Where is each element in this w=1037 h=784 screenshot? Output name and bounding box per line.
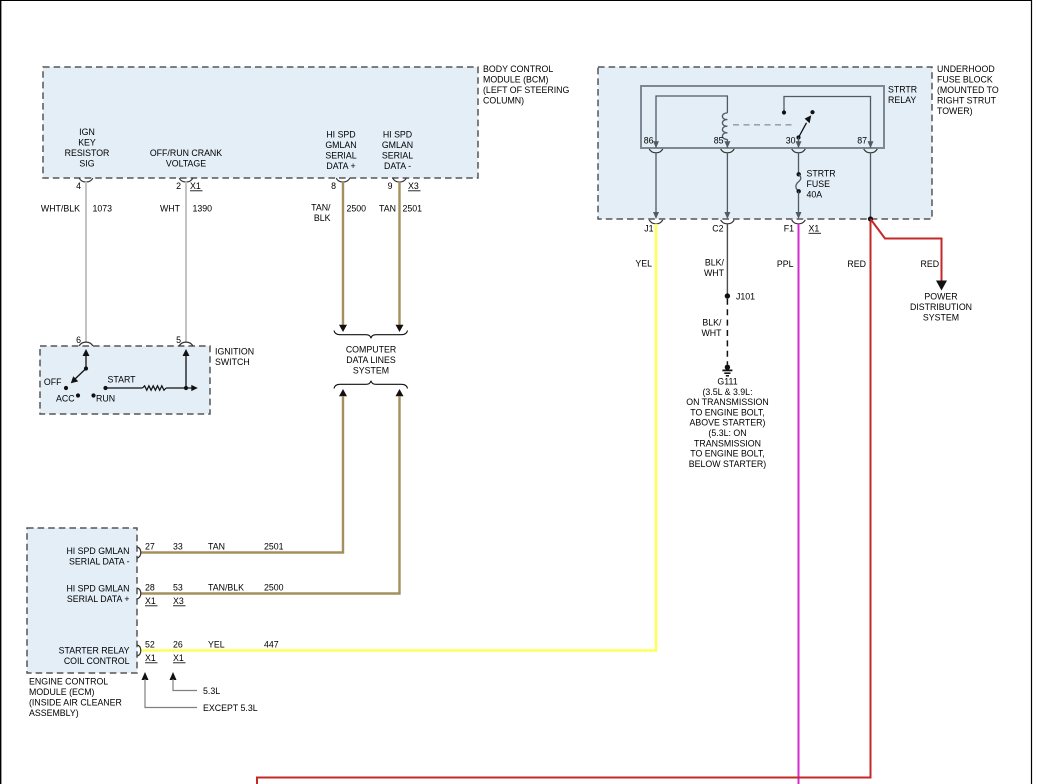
svg-text:SERIAL: SERIAL (382, 151, 413, 161)
BCM pin 9 connector cup (388, 178, 421, 191)
BCM pin function label HI SPD GMLAN SERIAL DATA - (382, 130, 413, 172)
svg-text:COLUMN): COLUMN) (483, 96, 524, 106)
svg-text:MODULE (ECM): MODULE (ECM) (29, 687, 95, 697)
wire YEL J1 down and to ECM (141, 224, 657, 651)
svg-text:53: 53 (173, 583, 183, 593)
BCM pin 8 connector cup (331, 178, 350, 191)
ECM pin function label STARTER RELAY COIL CONTROL (59, 646, 130, 667)
svg-text:26: 26 (173, 640, 183, 650)
svg-text:86: 86 (644, 136, 654, 146)
wire WHT/BLK 1073 pin4 to ignition pin6 (41, 182, 112, 342)
svg-text:5.3L: 5.3L (203, 686, 220, 696)
wire TAN/BLK 2500 pin8 to data lines (311, 182, 366, 332)
wire TAN 2501 from data lines to ECM pin27 (141, 389, 348, 553)
svg-text:2500: 2500 (347, 204, 367, 214)
svg-text:RIGHT STRUT: RIGHT STRUT (937, 96, 997, 106)
svg-text:WHT/BLK: WHT/BLK (41, 204, 80, 214)
svg-text:STARTER RELAY: STARTER RELAY (59, 646, 130, 656)
computer data lines upper brace (334, 331, 408, 339)
svg-text:FUSE: FUSE (807, 179, 831, 189)
ground G111 label (686, 377, 768, 469)
ignition RUN position (91, 393, 115, 403)
relay coil to armature dashed link (733, 124, 793, 126)
svg-text:BODY CONTROL: BODY CONTROL (483, 64, 553, 74)
svg-text:9: 9 (388, 181, 393, 191)
relay pin cups on relay bottom edge (649, 149, 877, 153)
wire RED junction down and across bottom (257, 221, 871, 784)
svg-text:ACC: ACC (56, 394, 75, 404)
svg-text:X1: X1 (190, 181, 201, 191)
ignition switch movable contact from pin 6 (71, 349, 90, 383)
ECM label text (29, 677, 122, 719)
svg-text:SIG: SIG (79, 159, 94, 169)
ignition pin 6 connector cup (76, 335, 93, 346)
junction node on fuse block edge (868, 216, 873, 221)
svg-text:PPL: PPL (777, 259, 794, 269)
wire RED branch to power distribution (871, 219, 948, 291)
svg-text:STRTR: STRTR (888, 85, 917, 95)
ignition start feed arrow (186, 385, 198, 391)
computer data lines system text (346, 345, 396, 376)
note arrow EXCEPT 5.3L to pin 52 (142, 672, 258, 713)
svg-text:RELAY: RELAY (888, 95, 916, 105)
ECM module box U2 (27, 528, 137, 673)
svg-text:40A: 40A (807, 190, 823, 200)
svg-text:28: 28 (145, 583, 155, 593)
svg-text:STRTR: STRTR (807, 169, 836, 179)
ECM pin 28/53 connector cup (137, 583, 284, 607)
svg-text:8: 8 (331, 181, 336, 191)
svg-text:SERIAL: SERIAL (325, 151, 356, 161)
svg-text:DATA LINES: DATA LINES (346, 355, 396, 365)
svg-text:SERIAL DATA +: SERIAL DATA + (67, 594, 130, 604)
svg-text:OFF: OFF (44, 377, 62, 387)
STRTR FUSE 40A F1 (796, 153, 836, 219)
svg-text:X1: X1 (173, 653, 184, 663)
starter relay K1 box (641, 85, 917, 149)
svg-text:2501: 2501 (403, 204, 423, 214)
svg-text:(MOUNTED TO: (MOUNTED TO (937, 85, 999, 95)
note arrow 5.3L to pin 26 (170, 672, 221, 696)
svg-text:TRANSMISSION: TRANSMISSION (694, 438, 761, 448)
ignition switch box S1 (40, 346, 254, 414)
svg-text:C2: C2 (712, 224, 723, 234)
relay pin 87 arrow (857, 136, 873, 149)
svg-text:RESISTOR: RESISTOR (65, 148, 110, 158)
svg-text:1390: 1390 (193, 204, 213, 214)
svg-text:J101: J101 (736, 291, 755, 301)
svg-text:33: 33 (173, 542, 183, 552)
svg-text:1073: 1073 (93, 204, 113, 214)
svg-text:VOLTAGE: VOLTAGE (166, 159, 206, 169)
power distribution system label (910, 292, 972, 323)
svg-text:X3: X3 (173, 596, 184, 606)
BCM pin function label IGN KEY RESISTOR SIG (65, 127, 110, 169)
svg-text:RUN: RUN (96, 394, 115, 404)
svg-text:RED: RED (921, 259, 940, 269)
relay pin 86 arrow (644, 136, 659, 149)
svg-text:(3.5L & 3.9L:: (3.5L & 3.9L: (702, 387, 752, 397)
svg-text:FUSE BLOCK: FUSE BLOCK (937, 75, 993, 85)
svg-text:YEL: YEL (208, 640, 225, 650)
fuse block exit cups J1 C2 F1 (644, 220, 821, 234)
splice J101 (725, 291, 755, 301)
svg-text:POWER: POWER (924, 292, 957, 302)
ignition START position (103, 375, 136, 391)
svg-text:WHT: WHT (160, 204, 181, 214)
svg-text:MODULE (BCM): MODULE (BCM) (483, 75, 549, 85)
relay coil winding pin86 to pin85 (656, 96, 727, 148)
ECM pin function label HI SPD GMLAN SERIAL DATA + (66, 584, 129, 605)
svg-text:HI SPD GMLAN: HI SPD GMLAN (66, 584, 129, 594)
ground G111 (722, 365, 732, 376)
svg-text:2501: 2501 (264, 542, 284, 552)
svg-text:ON TRANSMISSION: ON TRANSMISSION (686, 397, 768, 407)
BCM module box U1 (43, 67, 478, 178)
svg-text:IGN: IGN (79, 127, 95, 137)
svg-text:GMLAN: GMLAN (325, 140, 356, 150)
svg-text:27: 27 (145, 542, 155, 552)
svg-text:BLK/: BLK/ (705, 258, 725, 268)
svg-text:SWITCH: SWITCH (215, 357, 250, 367)
fuse block internal wire 85 to C2 (724, 153, 730, 219)
svg-text:J1: J1 (644, 224, 653, 234)
svg-text:X1: X1 (145, 653, 156, 663)
BCM pin function label OFF/RUN CRANK VOLTAGE (150, 148, 222, 169)
wire WHT 1390 pin2 to ignition pin5 (160, 182, 212, 342)
svg-text:IGNITION: IGNITION (215, 347, 254, 357)
BCM pin 2 connector cup (176, 178, 202, 191)
fuse block internal wire 87 to junction (870, 153, 872, 219)
svg-text:X1: X1 (809, 224, 820, 234)
wire BLK/WHT J101 to G111 dashed (701, 299, 727, 365)
svg-text:TO ENGINE BOLT,: TO ENGINE BOLT, (690, 449, 764, 459)
ignition resistor R1 (106, 386, 187, 390)
ECM pin 52/26 connector cup (137, 640, 279, 664)
svg-text:2: 2 (176, 181, 181, 191)
svg-text:COMPUTER: COMPUTER (346, 345, 396, 355)
relay pin 85 arrow (714, 136, 731, 149)
ignition pin 5 connector cup (176, 335, 193, 346)
svg-text:START: START (108, 375, 137, 385)
svg-text:RED: RED (847, 259, 866, 269)
wire PPL F1 down off page (777, 224, 799, 784)
computer data lines lower brace (334, 381, 408, 389)
svg-text:52: 52 (145, 640, 155, 650)
BCM pin 4 connector cup (76, 178, 93, 191)
svg-text:2500: 2500 (264, 583, 284, 593)
svg-text:5: 5 (176, 335, 181, 345)
svg-text:(5.3L: ON: (5.3L: ON (708, 428, 746, 438)
svg-text:ABOVE STARTER): ABOVE STARTER) (690, 418, 766, 428)
wire BLK/WHT C2 to J101 (704, 224, 727, 296)
svg-text:ASSEMBLY): ASSEMBLY) (29, 708, 79, 718)
svg-text:GMLAN: GMLAN (382, 140, 413, 150)
svg-text:SYSTEM: SYSTEM (923, 313, 959, 323)
svg-text:DATA -: DATA - (384, 161, 411, 171)
ignition junction node to pin 5 (183, 349, 190, 390)
svg-text:HI SPD GMLAN: HI SPD GMLAN (66, 546, 129, 556)
svg-text:F1: F1 (784, 224, 794, 234)
svg-text:YEL: YEL (635, 259, 652, 269)
svg-text:(INSIDE AIR CLEANER: (INSIDE AIR CLEANER (29, 698, 122, 708)
svg-text:6: 6 (76, 335, 81, 345)
svg-text:KEY: KEY (78, 138, 96, 148)
svg-text:HI SPD: HI SPD (326, 130, 355, 140)
fuse block internal wire 86 to J1 (653, 153, 659, 219)
ECM pin 27/33 connector cup (137, 542, 284, 559)
svg-text:G111: G111 (717, 377, 737, 387)
ignition OFF position (44, 377, 68, 390)
svg-text:TAN: TAN (379, 204, 396, 214)
svg-text:UNDERHOOD: UNDERHOOD (937, 64, 995, 74)
svg-text:TAN/: TAN/ (311, 203, 331, 213)
ignition ACC position (56, 393, 80, 403)
svg-text:HI SPD: HI SPD (383, 130, 412, 140)
svg-text:DISTRIBUTION: DISTRIBUTION (910, 302, 972, 312)
wire TAN 2501 pin9 to data lines (379, 182, 422, 332)
svg-text:4: 4 (76, 181, 81, 191)
svg-text:TAN/BLK: TAN/BLK (208, 583, 244, 593)
ECM pin function label HI SPD GMLAN SERIAL DATA - (66, 546, 129, 567)
svg-text:SYSTEM: SYSTEM (353, 366, 389, 376)
svg-text:DATA +: DATA + (326, 161, 355, 171)
underhood fuse block box (598, 67, 932, 219)
svg-text:EXCEPT 5.3L: EXCEPT 5.3L (203, 703, 258, 713)
svg-text:ENGINE CONTROL: ENGINE CONTROL (29, 677, 108, 687)
svg-text:WHT: WHT (701, 328, 722, 338)
wire TAN/BLK 2500 from data lines to ECM pin28 (141, 389, 404, 594)
svg-text:447: 447 (264, 640, 279, 650)
BCM label text (483, 64, 570, 106)
svg-text:(LEFT OF STEERING: (LEFT OF STEERING (483, 85, 570, 95)
svg-text:COIL CONTROL: COIL CONTROL (64, 656, 130, 666)
svg-text:87: 87 (857, 136, 867, 146)
svg-text:TOWER): TOWER) (937, 106, 973, 116)
svg-text:TAN: TAN (208, 542, 225, 552)
underhood fuse block label (937, 64, 999, 116)
svg-text:X3: X3 (408, 181, 419, 191)
BCM pin function label HI SPD GMLAN SERIAL DATA + (325, 130, 356, 172)
svg-text:SERIAL DATA -: SERIAL DATA - (69, 557, 130, 567)
svg-text:BELOW STARTER): BELOW STARTER) (689, 459, 766, 469)
svg-text:85: 85 (714, 136, 724, 146)
relay pin 30 arrow (786, 136, 802, 149)
svg-text:WHT: WHT (704, 268, 725, 278)
relay switch contacts and armature (782, 97, 871, 149)
svg-text:OFF/RUN CRANK: OFF/RUN CRANK (150, 148, 222, 158)
svg-text:BLK/: BLK/ (702, 318, 722, 328)
svg-text:X1: X1 (145, 596, 156, 606)
svg-text:BLK: BLK (314, 213, 331, 223)
svg-text:TO ENGINE BOLT,: TO ENGINE BOLT, (690, 407, 764, 417)
svg-text:30: 30 (786, 136, 796, 146)
